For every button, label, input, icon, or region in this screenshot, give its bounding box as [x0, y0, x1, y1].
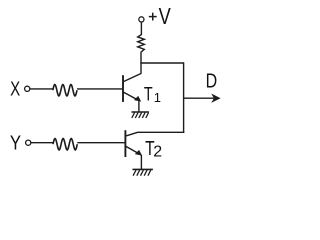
- svg-text:X: X: [10, 77, 20, 100]
- svg-text:T: T: [144, 84, 153, 105]
- svg-text:Y: Y: [10, 131, 22, 154]
- svg-text:1: 1: [154, 90, 161, 105]
- svg-text:D: D: [206, 70, 218, 92]
- svg-text:V: V: [159, 4, 171, 29]
- svg-text:2: 2: [153, 144, 162, 161]
